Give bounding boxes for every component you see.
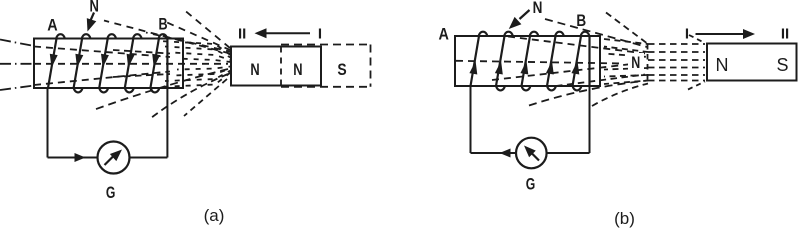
label B (a)	[158, 16, 167, 34]
wire (b) bottom left	[471, 152, 517, 154]
label N pointer (b)	[509, 10, 530, 29]
field line (b) axis	[456, 61, 624, 64]
field line (b) converging	[604, 39, 648, 44]
field line (b) above coil steep	[606, 13, 648, 45]
field line (a) below coil long	[92, 69, 228, 111]
field line (b) converging	[604, 47, 648, 53]
field line (a) converging to pole	[158, 73, 231, 88]
field line (b) face upper	[689, 35, 705, 43]
current arrow (a) on wire	[75, 153, 86, 162]
field line (a) converging to pole	[177, 59, 231, 63]
svg-text:(b): (b)	[614, 209, 635, 228]
label (b)	[614, 209, 635, 228]
svg-text:N: N	[293, 61, 302, 79]
svg-text:G: G	[106, 184, 116, 202]
wire (a) left terminal	[47, 88, 49, 158]
svg-text:B: B	[576, 12, 586, 30]
field line (a) converging to pole	[177, 67, 231, 70]
magnet ghost face (b) position I	[647, 44, 649, 81]
wire (a) bottom left	[48, 157, 98, 159]
label N north-pole pointer (a)	[87, 13, 97, 32]
magnet pole N solid (a) position II	[231, 47, 321, 86]
label A (a)	[47, 17, 57, 35]
label N text (a)	[90, 0, 99, 16]
field line (b) converging	[604, 54, 648, 58]
svg-text:A: A	[439, 26, 449, 44]
label G (a)	[106, 184, 116, 202]
magnet ghost outline (a) position I	[281, 45, 371, 87]
svg-text:A: A	[47, 17, 57, 35]
field line (a) lower row	[34, 72, 170, 86]
field line (b) upper interior	[508, 37, 645, 54]
field line (b) above coil	[545, 19, 647, 47]
label (a)	[204, 206, 225, 225]
wire (a) bottom right	[130, 157, 168, 159]
field line (a) mid upper short	[113, 50, 170, 54]
coil (a) turn 1	[48, 34, 65, 88]
svg-text:B: B	[158, 16, 167, 34]
field line (a) above coil	[186, 12, 230, 49]
svg-text:I: I	[318, 26, 322, 43]
label A (b)	[439, 26, 449, 44]
label N (b magnet)	[716, 55, 729, 75]
field line (a) converging to pole	[158, 41, 231, 55]
coil (b) turn 3	[520, 32, 538, 91]
field line (b) converging	[604, 75, 648, 77]
field line (a) above coil	[167, 23, 230, 51]
field line (a) mid lower short	[113, 74, 170, 77]
field line (a) above coil	[104, 21, 230, 54]
wire (b) right terminal	[589, 86, 591, 153]
svg-text:G: G	[526, 176, 536, 194]
label N right (a magnet)	[293, 61, 302, 79]
field line (a) upper-left	[0, 40, 34, 47]
field line (a) converging to pole	[172, 53, 231, 61]
label II (b)	[781, 25, 789, 42]
coil (a) turn 4	[125, 34, 142, 92]
wire (b) right lead inside	[588, 36, 590, 86]
label B (b)	[576, 12, 586, 30]
label S (a magnet)	[337, 61, 346, 79]
field line (b) bundle	[648, 80, 705, 82]
field line (a) below coil mid	[151, 74, 228, 118]
label I (b)	[685, 25, 689, 42]
coil (a) turn 3	[99, 34, 116, 92]
wire (b) left terminal	[470, 86, 472, 153]
svg-text:S: S	[776, 55, 788, 75]
coil (b) turn 4	[546, 32, 564, 91]
coil (b) turn 5	[571, 32, 589, 91]
label N ghost pole (b)	[628, 53, 644, 72]
svg-text:II: II	[238, 26, 246, 43]
field line (b) bundle	[648, 43, 705, 45]
svg-text:N: N	[716, 55, 729, 75]
field line (b) below coil short	[592, 84, 648, 107]
coil (b) turn 1	[469, 32, 487, 86]
field line (a) upper row	[34, 47, 170, 58]
coil AB (b) body	[455, 36, 600, 86]
field line (a) axis dash-dot	[0, 63, 34, 65]
label N left (a magnet)	[250, 61, 259, 79]
field line (b) converging	[604, 81, 648, 85]
svg-text:N: N	[250, 61, 259, 79]
field line (b) below coil long	[529, 81, 648, 106]
field line (b) bundle	[648, 59, 705, 61]
svg-text:S: S	[337, 61, 346, 79]
svg-text:II: II	[781, 25, 789, 42]
svg-text:I: I	[685, 25, 689, 42]
label G (b)	[526, 176, 536, 194]
field line (b) bundle	[648, 74, 705, 76]
svg-text:N: N	[631, 54, 640, 72]
field line (b) bundle	[648, 67, 705, 69]
label I (a)	[318, 26, 322, 43]
coil (a) turn 2	[74, 34, 91, 92]
svg-text:N: N	[533, 0, 543, 17]
field line (b) face lower	[688, 82, 705, 90]
galvanometer G (a)	[98, 142, 130, 174]
current arrow (b) on wire	[500, 149, 511, 158]
field line (a) converging to pole	[172, 69, 231, 76]
motion arrow (b)	[696, 29, 756, 39]
galvanometer G (b)	[516, 138, 547, 169]
label S (b magnet)	[776, 55, 788, 75]
field line (b) lower interior 2	[556, 75, 645, 87]
wire (a) right lead inside	[166, 39, 168, 89]
magnet divider dashed (a)	[280, 47, 282, 86]
wire (a) right terminal	[166, 88, 168, 158]
wire (b) bottom right	[547, 152, 590, 154]
coil (b) turn 2	[495, 32, 513, 91]
field line (a) below coil short	[184, 79, 227, 116]
svg-text:N: N	[90, 0, 99, 16]
field line (b) bundle	[648, 51, 705, 53]
coil AB (a) body	[34, 39, 183, 89]
label II (a)	[238, 26, 246, 43]
magnet NS solid (b) position II	[707, 44, 797, 81]
field line (a) axis	[34, 63, 228, 65]
field line (b) converging	[604, 68, 648, 70]
field line (a) converging to pole	[165, 47, 231, 58]
field line (a) above coil	[146, 33, 230, 52]
svg-text:(a): (a)	[204, 206, 225, 225]
field line (a) converging to pole	[165, 71, 231, 82]
motion arrow (a)	[255, 28, 311, 38]
field line (a) lower-left	[0, 86, 34, 91]
label N text (b)	[533, 0, 543, 17]
field line (b) lower interior	[492, 63, 645, 81]
coil (a) turn 5	[150, 34, 167, 92]
